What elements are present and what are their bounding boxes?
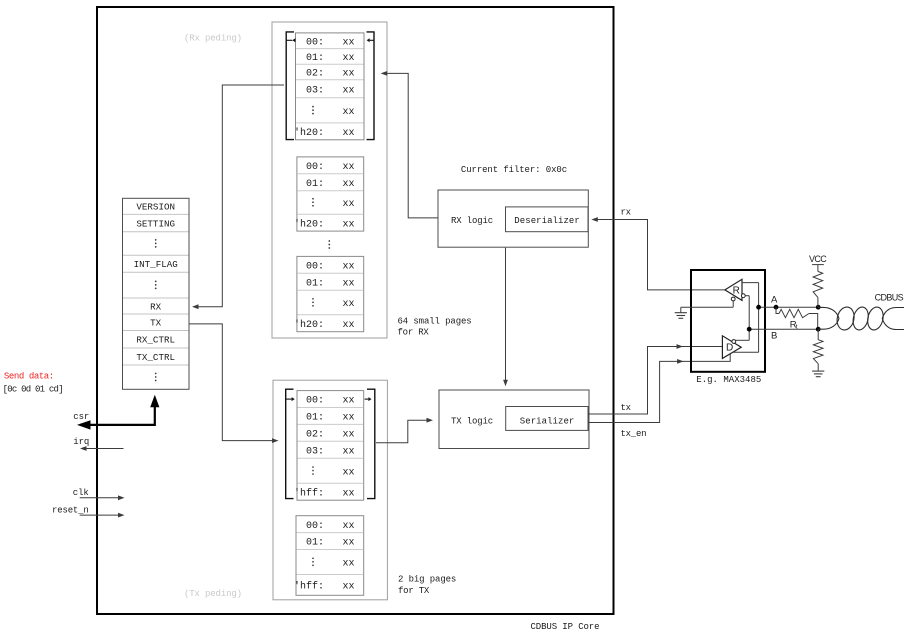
svg-text:CDBUS: CDBUS: [875, 293, 904, 303]
svg-text:01:: 01:: [306, 179, 324, 190]
svg-text:Current filter: 0x0c: Current filter: 0x0c: [461, 165, 567, 175]
svg-text:00:: 00:: [306, 396, 324, 407]
svg-text:VERSION: VERSION: [136, 202, 175, 213]
svg-text:xx: xx: [343, 37, 355, 48]
svg-text:xx: xx: [343, 396, 355, 407]
svg-text:xx: xx: [343, 299, 355, 310]
svg-text:03:: 03:: [306, 446, 324, 457]
svg-text:xx: xx: [343, 429, 355, 440]
svg-text:tx_en: tx_en: [621, 429, 647, 439]
svg-text:A: A: [771, 295, 778, 306]
svg-text:xx: xx: [343, 538, 355, 549]
svg-text:[0c 0d 01 cd]: [0c 0d 01 cd]: [3, 384, 64, 394]
svg-text:VCC: VCC: [809, 254, 827, 264]
svg-text:(Rx peding): (Rx peding): [184, 34, 242, 44]
svg-text:xx: xx: [343, 53, 355, 64]
svg-text:00:: 00:: [306, 261, 324, 272]
svg-text:Deserializer: Deserializer: [514, 216, 580, 226]
svg-text:02:: 02:: [306, 429, 324, 440]
svg-text:xx: xx: [343, 446, 355, 457]
svg-text:xx: xx: [343, 85, 355, 96]
svg-text:Serializer: Serializer: [520, 417, 575, 427]
svg-text:B: B: [771, 330, 777, 341]
svg-text:xx: xx: [343, 162, 355, 173]
svg-text:tx: tx: [621, 403, 632, 413]
svg-text:SETTING: SETTING: [136, 218, 175, 229]
svg-text:clk: clk: [73, 488, 89, 498]
svg-text:RX: RX: [150, 301, 162, 312]
svg-text:R: R: [733, 286, 740, 297]
svg-text:for RX: for RX: [398, 328, 430, 338]
svg-text:rx: rx: [621, 208, 632, 218]
svg-text:csr: csr: [73, 412, 89, 422]
svg-text:TX logic: TX logic: [451, 417, 493, 427]
svg-text:xx: xx: [343, 488, 355, 499]
svg-text:01:: 01:: [306, 53, 324, 64]
svg-text:03:: 03:: [306, 85, 324, 96]
svg-text:Send data:: Send data:: [4, 372, 54, 382]
svg-text:xx: xx: [343, 467, 355, 478]
svg-text:00:: 00:: [306, 521, 324, 532]
svg-text:01:: 01:: [306, 538, 324, 549]
svg-text:xx: xx: [343, 582, 355, 593]
svg-text:TX: TX: [150, 318, 162, 329]
svg-text:t: t: [796, 323, 798, 330]
svg-text:xx: xx: [343, 107, 355, 118]
svg-text:xx: xx: [343, 261, 355, 272]
svg-text:xx: xx: [343, 521, 355, 532]
svg-text:02:: 02:: [306, 69, 324, 80]
svg-text:irq: irq: [73, 437, 89, 447]
svg-text:xx: xx: [343, 320, 355, 331]
svg-text:'h20:: 'h20:: [294, 127, 324, 139]
svg-text:xx: xx: [343, 413, 355, 424]
svg-text:CDBUS IP Core: CDBUS IP Core: [531, 622, 600, 632]
svg-text:D: D: [726, 342, 733, 353]
svg-text:xx: xx: [343, 69, 355, 80]
svg-text:00:: 00:: [306, 37, 324, 48]
svg-text:for TX: for TX: [398, 586, 430, 596]
svg-text:xx: xx: [343, 199, 355, 210]
svg-text:'h20:: 'h20:: [294, 319, 324, 331]
svg-text:'hff:: 'hff:: [294, 487, 324, 499]
svg-text:(Tx peding): (Tx peding): [184, 589, 242, 599]
svg-text:reset_n: reset_n: [52, 506, 89, 516]
svg-text:RX logic: RX logic: [451, 216, 493, 226]
svg-text:xx: xx: [343, 179, 355, 190]
svg-text:'hff:: 'hff:: [294, 581, 324, 593]
svg-text:64 small pages: 64 small pages: [398, 316, 472, 326]
svg-text:01:: 01:: [306, 413, 324, 424]
svg-text:INT_FLAG: INT_FLAG: [134, 259, 178, 270]
svg-text:01:: 01:: [306, 278, 324, 289]
svg-text:xx: xx: [343, 128, 355, 139]
svg-text:xx: xx: [343, 278, 355, 289]
svg-text:RX_CTRL: RX_CTRL: [136, 335, 175, 346]
svg-text:'h20:: 'h20:: [294, 218, 324, 230]
svg-text:TX_CTRL: TX_CTRL: [136, 352, 175, 363]
svg-text:xx: xx: [343, 559, 355, 570]
svg-text:xx: xx: [343, 219, 355, 230]
svg-text:E.g. MAX3485: E.g. MAX3485: [696, 375, 761, 385]
svg-text:00:: 00:: [306, 162, 324, 173]
svg-text:2 big pages: 2 big pages: [398, 575, 456, 585]
